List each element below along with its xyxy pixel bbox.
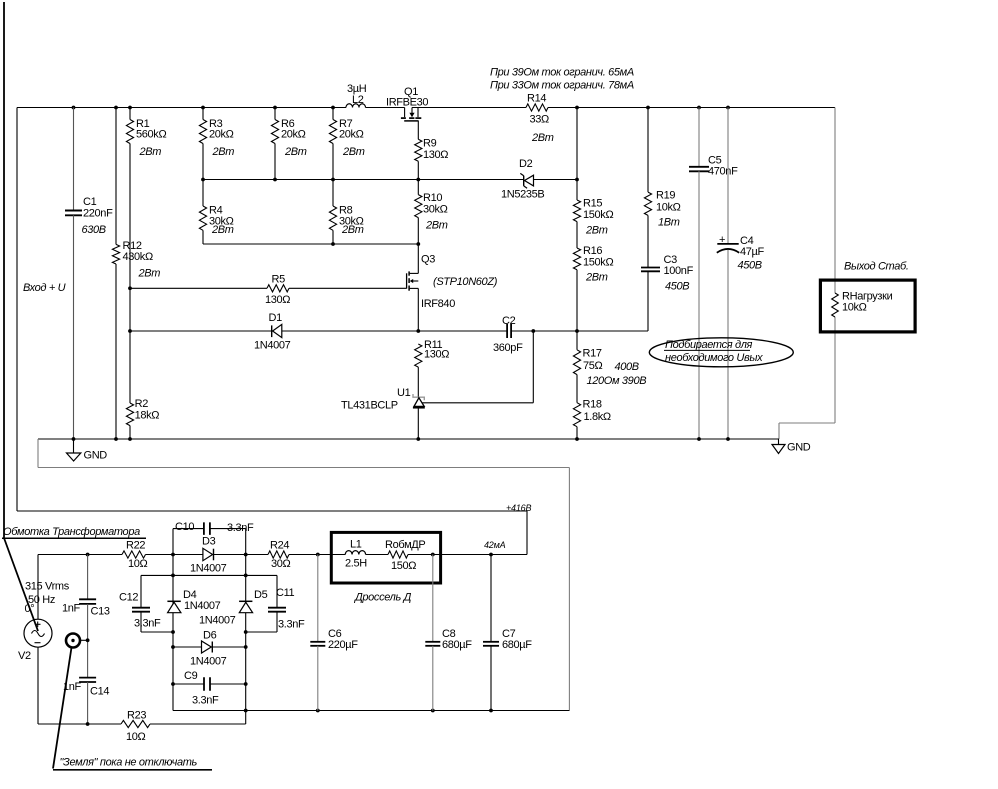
svg-text:220nF: 220nF [83, 208, 113, 220]
svg-text:При 39Ом ток огранич. 65мА: При 39Ом ток огранич. 65мА [490, 67, 634, 79]
svg-text:1nF: 1nF [62, 603, 81, 615]
svg-text:315 Vrms: 315 Vrms [25, 581, 70, 593]
wire bridge left column [171, 555, 175, 711]
svg-text:630В: 630В [82, 224, 106, 236]
transformer source V2 [18, 555, 52, 725]
svg-text:+: + [719, 234, 725, 246]
svg-text:47µF: 47µF [740, 246, 765, 258]
resistor R14 33Ω [526, 93, 554, 145]
ground symbol right GND [772, 439, 811, 454]
capacitor C9 3.3nF [173, 670, 246, 707]
svg-text:2Вт: 2Вт [341, 224, 364, 236]
svg-text:Вход + U: Вход + U [23, 282, 66, 294]
svg-text:R15: R15 [583, 198, 602, 210]
svg-text:360pF: 360pF [493, 342, 523, 354]
svg-text:2Вт: 2Вт [585, 272, 608, 284]
node dots mid rail [201, 178, 579, 182]
svg-text:C10: C10 [175, 521, 194, 533]
svg-text:450В: 450В [738, 260, 762, 272]
svg-text:2Вт: 2Вт [212, 146, 235, 158]
resistor R5 130Ω [128, 274, 407, 307]
diode D4 1N4007 [167, 589, 220, 613]
svg-text:C2: C2 [502, 315, 516, 327]
svg-text:C1: C1 [83, 196, 97, 208]
label Вход +U [23, 282, 66, 294]
capacitor C11 3.3nF [246, 575, 305, 632]
svg-text:150kΩ: 150kΩ [583, 209, 613, 221]
diode D3 1N4007 [190, 536, 227, 575]
svg-text:Подбирается для: Подбирается для [665, 339, 753, 351]
svg-text:R16: R16 [583, 245, 602, 257]
svg-text:R10: R10 [423, 192, 442, 204]
svg-text:3.3nF: 3.3nF [192, 695, 219, 707]
svg-text:20kΩ: 20kΩ [339, 129, 364, 141]
resistor R6 20kΩ [271, 108, 306, 180]
svg-text:220µF: 220µF [328, 639, 358, 651]
wire GND return to lower section [38, 439, 569, 711]
svg-text:470nF: 470nF [708, 166, 738, 178]
label V2 params [25, 581, 70, 616]
resistor R17 75Ω [573, 331, 646, 387]
svg-text:IRF840: IRF840 [421, 298, 455, 310]
svg-text:2Вт: 2Вт [138, 268, 161, 280]
note current limit [490, 67, 634, 92]
resistor R12 430kΩ [112, 108, 160, 440]
svg-text:R24: R24 [270, 540, 289, 552]
op-amp U1 TL431BCLP [341, 387, 425, 439]
load box RНагрузки [820, 280, 915, 332]
wire rail y244 [203, 242, 420, 246]
capacitor C12 3.3nF [119, 575, 173, 632]
svg-text:"Земля" пока не отключать: "Земля" пока не отключать [60, 757, 198, 769]
capacitor C1 220nF [65, 108, 113, 440]
svg-text:L1: L1 [350, 539, 362, 551]
svg-text:2.5H: 2.5H [345, 558, 367, 570]
wire bridge right column [244, 555, 248, 725]
svg-text:680µF: 680µF [442, 639, 472, 651]
svg-text:400В: 400В [615, 361, 639, 373]
resistor R10 30kΩ [415, 180, 448, 245]
svg-text:V2: V2 [18, 650, 31, 662]
resistor R4 30kΩ [199, 180, 233, 245]
svg-text:R2: R2 [135, 398, 149, 410]
svg-text:1N4007: 1N4007 [254, 340, 291, 352]
svg-text:GND: GND [84, 450, 108, 462]
resistor R9 130Ω [415, 138, 449, 180]
ellipse note Подбирается [649, 338, 793, 367]
resistor R11 130Ω [415, 339, 450, 398]
wire bottom rail y710 [173, 709, 569, 713]
svg-text:R17: R17 [583, 348, 602, 360]
svg-text:1.8kΩ: 1.8kΩ [584, 411, 611, 423]
diode D2 1N5235B [501, 158, 544, 201]
resistor R22 10Ω [122, 540, 148, 571]
svg-text:3.3nF: 3.3nF [278, 619, 305, 631]
svg-text:150kΩ: 150kΩ [583, 257, 613, 269]
svg-text:42мА: 42мА [484, 540, 506, 550]
node dots lower main [86, 553, 493, 557]
label Земля [53, 757, 212, 770]
svg-text:75Ω: 75Ω [583, 360, 603, 372]
svg-text:30kΩ: 30kΩ [423, 204, 448, 216]
label Выход Стаб [844, 261, 909, 273]
svg-text:IRFBE30: IRFBE30 [386, 97, 428, 109]
node dots on top rail [72, 106, 730, 110]
svg-text:3.3nF: 3.3nF [134, 618, 161, 630]
svg-text:При 33Ом ток огранич. 78мА: При 33Ом ток огранич. 78мА [490, 80, 634, 92]
svg-text:2Вт: 2Вт [211, 224, 234, 236]
capacitor C4 47µF [717, 108, 765, 440]
svg-text:130Ω: 130Ω [265, 294, 290, 306]
inductor L2 3uH [346, 83, 367, 108]
svg-text:2Вт: 2Вт [342, 146, 365, 158]
resistor RобмДР 150Ω [385, 539, 425, 572]
capacitor C14 1nF [63, 678, 109, 724]
capacitor C8 680µF [425, 555, 472, 711]
wire mid rail y180 [203, 179, 577, 181]
resistor R16 150kΩ [573, 222, 613, 331]
label Обмотка Трансформатора [3, 526, 140, 538]
svg-text:C12: C12 [119, 592, 138, 604]
svg-text:RобмДР: RобмДР [385, 539, 425, 551]
svg-text:430kΩ: 430kΩ [123, 251, 153, 263]
capacitor C7 680µF [483, 555, 532, 711]
svg-text:2Вт: 2Вт [585, 225, 608, 237]
svg-text:2Вт: 2Вт [139, 146, 162, 158]
svg-text:10kΩ: 10kΩ [842, 302, 867, 314]
svg-text:560kΩ: 560kΩ [136, 129, 166, 141]
resistor R3 20kΩ [199, 108, 234, 180]
svg-text:1N4007: 1N4007 [199, 615, 236, 627]
svg-text:R5: R5 [272, 274, 286, 286]
capacitor C6 220µF [310, 555, 358, 711]
svg-text:10Ω: 10Ω [126, 731, 146, 743]
capacitor C10 3.3nF [173, 521, 254, 555]
svg-text:U1: U1 [397, 387, 411, 399]
svg-text:D5: D5 [254, 589, 268, 601]
svg-text:0°: 0° [25, 603, 35, 615]
svg-text:C14: C14 [90, 686, 109, 698]
svg-text:R23: R23 [127, 710, 146, 722]
svg-text:1N4007: 1N4007 [184, 600, 221, 612]
svg-text:(STP10N60Z): (STP10N60Z) [433, 276, 498, 288]
svg-text:680µF: 680µF [502, 639, 532, 651]
svg-text:30Ω: 30Ω [271, 558, 291, 570]
resistor R18 1.8kΩ [573, 375, 610, 439]
svg-text:150Ω: 150Ω [391, 560, 416, 572]
label pointer line left border [2, 2, 146, 631]
svg-text:C13: C13 [91, 606, 110, 618]
svg-text:R9: R9 [423, 138, 437, 150]
diode D6 1N4007 [173, 630, 246, 668]
wire C2 to U1 ref [423, 331, 534, 403]
svg-text:2Вт: 2Вт [531, 132, 554, 144]
label 42мА [484, 540, 506, 550]
svg-text:R19: R19 [656, 190, 675, 202]
svg-text:1N4007: 1N4007 [190, 656, 227, 668]
node dots GND rail [72, 437, 730, 441]
svg-text:18kΩ: 18kΩ [135, 410, 160, 422]
svg-text:33Ω: 33Ω [530, 114, 550, 126]
svg-text:D6: D6 [203, 630, 217, 642]
wire top rail [17, 107, 835, 109]
svg-text:10kΩ: 10kΩ [656, 202, 681, 214]
svg-text:100nF: 100nF [664, 265, 694, 277]
capacitor C2 360pF [493, 315, 648, 354]
resistor R19 10kΩ [644, 108, 680, 268]
svg-text:GND: GND [787, 442, 811, 454]
svg-text:1N5235B: 1N5235B [501, 189, 544, 201]
svg-text:Выход Стаб.: Выход Стаб. [844, 261, 909, 273]
svg-text:D2: D2 [519, 158, 533, 170]
svg-text:20kΩ: 20kΩ [209, 129, 234, 141]
capacitor C13 1nF [62, 555, 110, 678]
svg-text:C9: C9 [184, 670, 198, 682]
svg-text:1N4007: 1N4007 [190, 563, 227, 575]
transistor Q1 IRFBE30 [386, 86, 428, 139]
earth terminal circle [53, 634, 90, 769]
capacitor C5 470nF [689, 108, 738, 440]
wire input left column Вход +U [16, 108, 18, 512]
svg-text:C11: C11 [276, 587, 295, 599]
svg-text:130Ω: 130Ω [424, 349, 449, 361]
svg-text:1Вт: 1Вт [658, 217, 680, 229]
diode D1 1N4007 [128, 312, 507, 352]
ground symbol left GND [67, 439, 108, 462]
resistor R7 20kΩ [329, 108, 364, 180]
choke box L1 RобмДР [331, 532, 440, 583]
svg-text:2Вт: 2Вт [425, 220, 448, 232]
svg-text:130Ω: 130Ω [423, 149, 448, 161]
svg-text:3.3nF: 3.3nF [227, 522, 254, 534]
capacitor C3 100nF [641, 254, 694, 331]
transistor Q3 IRF840 [407, 244, 498, 331]
wire bottom y724 with R23 [38, 710, 246, 744]
svg-text:120Ом 390В: 120Ом 390В [587, 375, 647, 387]
label Дроссель Д [353, 592, 412, 604]
svg-text:необходимого Uвых: необходимого Uвых [665, 352, 763, 364]
svg-text:450В: 450В [665, 281, 689, 293]
svg-text:Обмотка Трансформатора: Обмотка Трансформатора [3, 526, 140, 538]
svg-text:R22: R22 [126, 540, 145, 552]
svg-text:L2: L2 [352, 94, 364, 106]
inductor L1 2.5H [345, 539, 367, 570]
svg-text:10Ω: 10Ω [128, 558, 148, 570]
svg-text:D3: D3 [202, 536, 216, 548]
label 1N4007 mid [199, 615, 236, 627]
resistor R15 150kΩ [573, 108, 613, 237]
wire lower main y554 [38, 554, 527, 556]
svg-text:R18: R18 [583, 399, 602, 411]
wire row y575 [141, 574, 277, 576]
svg-text:+416В: +416В [506, 503, 531, 513]
resistor R8 30kΩ [329, 180, 363, 245]
svg-text:TL431BCLP: TL431BCLP [341, 400, 398, 412]
resistor R1 560kΩ [126, 108, 166, 289]
svg-text:2Вт: 2Вт [284, 146, 307, 158]
svg-text:R14: R14 [527, 93, 546, 105]
diode D5 1N4007 [239, 589, 267, 613]
svg-text:20kΩ: 20kΩ [281, 129, 306, 141]
resistor R2 18kΩ [126, 288, 159, 439]
resistor R24 30Ω [268, 540, 291, 571]
svg-text:Q3: Q3 [421, 254, 435, 266]
wire +416V feed [17, 503, 531, 555]
svg-text:D1: D1 [269, 312, 283, 324]
svg-text:Дроссель Д: Дроссель Д [353, 592, 412, 604]
wire GND rail [38, 438, 779, 440]
wire output right column [779, 108, 835, 440]
